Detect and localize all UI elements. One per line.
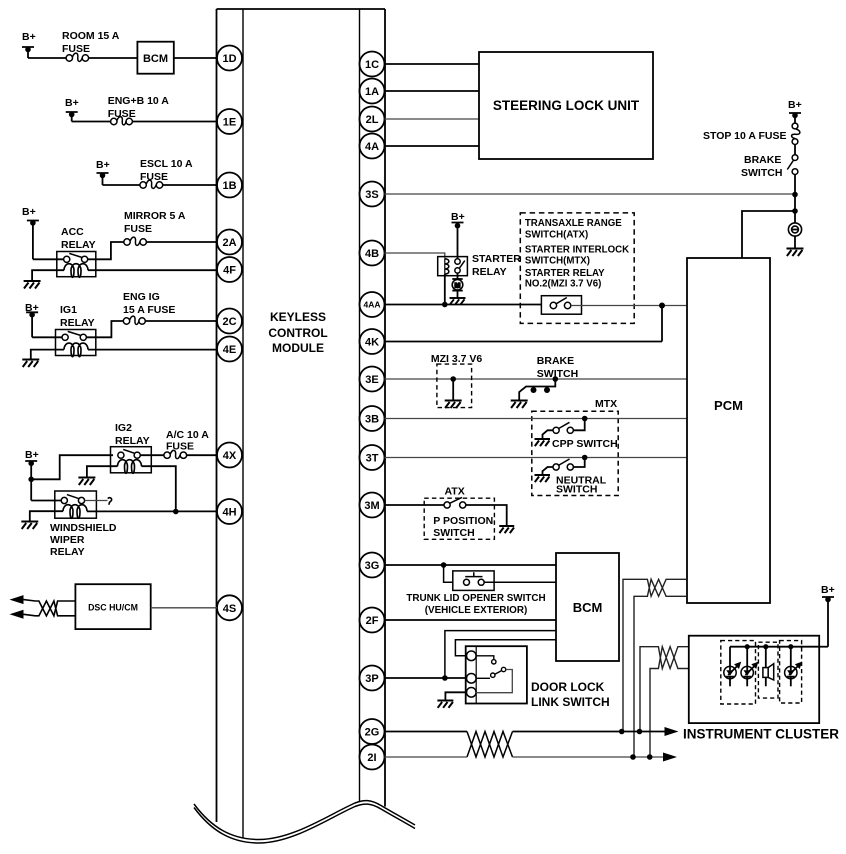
ground (starter motor)	[450, 298, 466, 304]
svg-text:A/C 10 A: A/C 10 A	[166, 429, 209, 441]
ground (neutral switch)	[535, 475, 551, 482]
svg-text:B+: B+	[451, 211, 465, 223]
wire pin 1C to steering lock unit	[385, 63, 480, 65]
keyless control module right strip outer line	[384, 9, 386, 807]
ground (wiper relay)	[21, 522, 38, 530]
wire 2G to instrument cluster arrow	[513, 731, 666, 733]
svg-text:1D: 1D	[222, 53, 236, 65]
wire B+ into cluster	[819, 646, 828, 648]
svg-text:4H: 4H	[222, 507, 236, 519]
fuse A/C 10 A	[164, 450, 187, 458]
wire IG1 coil to ground	[31, 350, 64, 359]
wire pin 4K	[385, 341, 663, 343]
pin 4F	[217, 257, 242, 282]
label WINDSHIELD WIPER RELAY	[50, 522, 117, 558]
svg-text:INSTRUMENT CLUSTER: INSTRUMENT CLUSTER	[683, 727, 839, 742]
pin 3T	[360, 445, 385, 470]
wire pin 3E to PCM	[385, 378, 688, 380]
fuse MIRROR 5 A	[124, 237, 147, 245]
svg-text:4F: 4F	[223, 265, 236, 277]
starter motor	[452, 273, 463, 297]
svg-text:4K: 4K	[365, 337, 379, 349]
wire tap down to trunk switch	[444, 565, 453, 582]
pin 2G	[360, 719, 385, 744]
wire 2I to arrow	[513, 756, 664, 758]
svg-text:ATX: ATX	[445, 486, 465, 498]
IG2 relay	[111, 447, 152, 474]
module bottom break wave	[194, 801, 415, 840]
pin 2F	[360, 608, 385, 633]
svg-text:CPP SWITCH: CPP SWITCH	[552, 438, 618, 450]
wire ACC coil to pin 4F	[88, 269, 217, 271]
wire IG2 coil to ground	[87, 466, 118, 477]
BCM box (top)	[137, 42, 173, 74]
pin 4S	[217, 595, 242, 620]
wire BCM to pin 1D	[174, 57, 217, 59]
junction bus LED3	[788, 644, 793, 649]
label TRUNK LID OPENER SWITCH	[406, 593, 545, 616]
pin 2A	[217, 230, 242, 255]
svg-text:B+: B+	[96, 159, 110, 171]
arrow (DSC pair lower)	[10, 610, 24, 619]
wire pin 2I line	[385, 756, 468, 758]
ground (IG1 relay)	[22, 360, 39, 368]
svg-text:4X: 4X	[223, 450, 237, 462]
svg-text:STARTER: STARTER	[472, 253, 521, 265]
DSC HU/CM box	[75, 584, 150, 629]
wire lamp to ground	[794, 236, 796, 248]
wire starter coil down to 4AA line	[444, 274, 446, 304]
svg-text:SWITCH(ATX): SWITCH(ATX)	[525, 229, 588, 240]
svg-text:RELAY: RELAY	[50, 546, 85, 558]
brake switch (right vertical)	[787, 145, 798, 175]
P position switch	[444, 497, 466, 508]
brake switch (3E plunger)	[519, 379, 555, 400]
junction 2G a	[619, 729, 625, 735]
fuse ESCL 10 A	[140, 180, 163, 188]
transaxle range switch dashed box	[520, 213, 634, 324]
svg-text:ROOM 15 A: ROOM 15 A	[62, 30, 120, 42]
IG1 relay	[56, 330, 96, 357]
wire B+ branch to IG2 relay	[31, 455, 113, 479]
ground (ACC relay)	[24, 281, 41, 289]
svg-text:4S: 4S	[223, 603, 236, 615]
wire brake switch down to lamp	[794, 175, 796, 224]
svg-text:BCM: BCM	[573, 600, 603, 615]
ground (IG2 relay)	[78, 478, 95, 486]
wire B+ to fuse	[103, 184, 140, 186]
stop lamp	[788, 223, 801, 236]
cluster dashed box 1	[721, 641, 756, 704]
pin 3E	[360, 367, 385, 392]
svg-text:2I: 2I	[367, 752, 376, 764]
wire BCM to door lock node	[445, 631, 556, 678]
svg-text:ACC: ACC	[61, 226, 84, 238]
junction 3P node	[442, 675, 448, 681]
label IG1 RELAY	[60, 304, 95, 329]
svg-text:BRAKE: BRAKE	[744, 154, 781, 166]
BCM-PCM twisted pair upper wire	[623, 579, 687, 731]
starter relay	[438, 257, 468, 276]
label IG2 RELAY	[115, 422, 150, 447]
junction CPP tap	[582, 416, 588, 422]
wire B+ to IG1 relay	[32, 336, 62, 338]
pin 1A	[360, 79, 385, 104]
svg-text:3M: 3M	[364, 500, 379, 512]
fuse ENG IG 15 A	[123, 316, 145, 324]
svg-text:FUSE: FUSE	[124, 223, 152, 235]
wire IG2 coil to 4H line	[142, 466, 176, 511]
windshield wiper relay	[55, 491, 97, 518]
brake switch contacts	[531, 387, 551, 393]
svg-text:SWITCH: SWITCH	[741, 167, 782, 179]
wire B+ to fuse	[72, 121, 111, 123]
junction bus LED2	[745, 644, 750, 649]
svg-text:3T: 3T	[366, 453, 379, 465]
wire wiper coil to pin 4H	[87, 510, 217, 512]
label P POSITION SWITCH	[433, 515, 493, 539]
svg-text:WINDSHIELD: WINDSHIELD	[50, 522, 117, 534]
neutral switch	[543, 458, 585, 475]
wire pin 3S to brake switch node	[385, 193, 796, 195]
arrow 2G	[665, 727, 679, 736]
keyless control module left strip outer line	[216, 9, 218, 822]
MZI 3.7 V6 dashed box	[437, 364, 472, 408]
DSC twisted pair	[24, 600, 76, 616]
svg-text:4A: 4A	[365, 141, 379, 153]
ground (3E brake switch)	[511, 401, 528, 409]
wire pin 4AA to interlock switch	[385, 304, 542, 306]
pin 1B	[217, 173, 242, 198]
wire IG1 coil to pin 4E	[88, 349, 217, 351]
pin 1C	[360, 52, 385, 77]
svg-text:RELAY: RELAY	[60, 317, 95, 329]
pin 4X	[217, 443, 242, 468]
fuse ROOM 15 A	[66, 53, 89, 61]
svg-text:B+: B+	[788, 99, 802, 111]
junction 2G b	[637, 729, 643, 735]
svg-text:NO.2(MZI 3.7 V6): NO.2(MZI 3.7 V6)	[525, 279, 601, 290]
pin 3G	[360, 553, 385, 578]
svg-text:FUSE: FUSE	[140, 171, 168, 183]
svg-text:RELAY: RELAY	[61, 239, 96, 251]
PCM box	[687, 258, 770, 603]
wire pin 3B to PCM	[385, 418, 688, 420]
label ACC RELAY	[61, 226, 96, 251]
junction neutral tap	[582, 455, 588, 461]
svg-text:3P: 3P	[365, 673, 378, 685]
svg-text:3B: 3B	[365, 414, 379, 426]
svg-text:STARTER INTERLOCK: STARTER INTERLOCK	[525, 245, 629, 256]
svg-text:4AA: 4AA	[363, 300, 380, 310]
label BRAKE SWITCH (right)	[741, 154, 782, 179]
wire pin 4A to steering lock unit	[385, 145, 480, 147]
svg-text:1E: 1E	[223, 117, 236, 129]
wire door lock bottom pin to ground	[445, 692, 466, 700]
wire fuse to pin 4X	[187, 454, 217, 456]
svg-text:(VEHICLE EXTERIOR): (VEHICLE EXTERIOR)	[425, 605, 528, 616]
keyless control module name	[268, 310, 327, 355]
label BRAKE SWITCH (3E)	[537, 355, 578, 380]
svg-text:3G: 3G	[365, 560, 380, 572]
wire ACC switch to fuse	[88, 242, 124, 259]
junction starter coil / 4AA	[442, 302, 448, 308]
svg-text:3E: 3E	[365, 374, 378, 386]
ground (stop lamp)	[787, 249, 804, 257]
wire pin 2F to BCM	[385, 619, 557, 621]
svg-text:PCM: PCM	[714, 398, 743, 413]
B+ terminal (instrument cluster)	[821, 584, 835, 647]
junction on 4H line	[173, 509, 179, 515]
svg-text:IG1: IG1	[60, 304, 77, 316]
door lock pin top	[467, 651, 477, 661]
door lock internal switch	[476, 667, 506, 678]
svg-text:TRUNK LID OPENER SWITCH: TRUNK LID OPENER SWITCH	[406, 593, 545, 604]
wire 4K riser	[661, 306, 663, 342]
trunk lid opener switch	[453, 571, 494, 591]
svg-text:RELAY: RELAY	[115, 435, 150, 447]
junction bus buzzer	[763, 644, 768, 649]
pin 4A	[360, 134, 385, 159]
svg-text:MZI 3.7 V6: MZI 3.7 V6	[431, 353, 483, 365]
junction B+ branch	[28, 477, 34, 483]
label ENG IG 15 A FUSE	[123, 291, 175, 316]
indicator LED 1	[724, 647, 741, 687]
svg-text:ENG+B 10 A: ENG+B 10 A	[108, 95, 170, 107]
svg-text:2C: 2C	[222, 316, 236, 328]
pin 4AA	[360, 292, 385, 317]
junction 4AA/4K	[659, 303, 665, 309]
label STARTER RELAY	[472, 253, 521, 278]
B+ terminal (IG2/wiper relays)	[25, 449, 39, 501]
wire pin 4B to starter relay coil	[385, 253, 445, 259]
junction PCM branch node	[792, 208, 798, 214]
wire pin 3G to BCM	[385, 564, 557, 566]
ATX dashed box	[424, 498, 494, 539]
B+ terminal (starter relay)	[451, 211, 465, 259]
svg-text:IG2: IG2	[115, 422, 132, 434]
CPP switch	[543, 419, 585, 439]
cluster dashed box 2	[758, 642, 778, 698]
svg-text:3S: 3S	[365, 189, 378, 201]
svg-text:4E: 4E	[223, 344, 236, 356]
wire IG1 switch to fuse	[86, 321, 123, 337]
wire B+ to wiper relay	[31, 500, 61, 502]
svg-text:DSC HU/CM: DSC HU/CM	[88, 603, 138, 613]
B+ terminal (ESCL fuse)	[96, 159, 110, 185]
svg-text:BCM: BCM	[143, 53, 168, 65]
B+ terminal (IG1 relay)	[25, 302, 39, 337]
label ENG+B 10 A FUSE	[108, 95, 170, 120]
arrow 2I	[663, 753, 677, 762]
wire ACC coil to ground	[32, 270, 64, 280]
door lock internal return wire	[476, 670, 512, 693]
svg-text:M: M	[455, 282, 461, 289]
BCM box (lower)	[556, 553, 619, 661]
pin 4B	[360, 241, 385, 266]
label ESCL 10 A FUSE	[140, 158, 193, 183]
pin 3P	[360, 666, 385, 691]
wire fuse to pin 1B	[163, 184, 217, 186]
cluster internal bus	[730, 646, 819, 648]
label A/C 10 A FUSE	[166, 429, 209, 453]
cluster dashed box 3	[780, 641, 802, 703]
instrument cluster box	[689, 636, 819, 723]
svg-text:BRAKE: BRAKE	[537, 355, 574, 367]
svg-text:2A: 2A	[222, 237, 236, 249]
wire pin 3M to P position switch	[385, 504, 444, 506]
svg-text:RELAY: RELAY	[472, 266, 507, 278]
2G/2I twisted pair	[467, 732, 513, 758]
wire DSC to pin 4S	[151, 607, 217, 609]
cluster twisted pair lower wire	[650, 647, 689, 757]
keyless control module top edge	[217, 8, 386, 10]
svg-text:B+: B+	[25, 449, 39, 461]
svg-text:DOOR LOCK: DOOR LOCK	[531, 680, 605, 694]
svg-text:ENG IG: ENG IG	[123, 291, 160, 303]
wire BCM to door lock top pin	[455, 640, 556, 656]
pin 4K	[360, 329, 385, 354]
ground (CPP switch)	[535, 439, 551, 446]
starter interlock switch	[541, 296, 581, 315]
svg-text:WIPER: WIPER	[50, 534, 85, 546]
MTX dashed box	[532, 411, 618, 495]
junction 2I b	[647, 754, 653, 760]
indicator LED 3	[785, 647, 802, 687]
wire wiper coil to ground	[30, 511, 63, 521]
B+ terminal (stop fuse)	[788, 99, 802, 123]
fuse STOP 10 A (vertical)	[792, 123, 800, 144]
pin 3S	[360, 182, 385, 207]
wire node to PCM top	[742, 211, 795, 258]
junction trunk switch tap	[441, 562, 447, 568]
cluster twisted pair upper wire	[640, 647, 689, 732]
pin 3B	[360, 406, 385, 431]
wire pin 2L to steering lock unit	[385, 118, 480, 120]
svg-text:4B: 4B	[365, 248, 379, 260]
wire fuse to BCM box	[89, 57, 138, 59]
junction 3S node	[792, 192, 798, 198]
B+ terminal (ENG+B fuse)	[65, 97, 79, 122]
svg-text:1C: 1C	[365, 59, 379, 71]
svg-text:FUSE: FUSE	[166, 441, 194, 453]
wire 3E tap to ground	[452, 379, 454, 400]
svg-text:P POSITION: P POSITION	[433, 515, 493, 527]
arrow (DSC pair upper)	[10, 595, 24, 604]
B+ terminal (ACC relay)	[22, 206, 39, 259]
svg-text:2G: 2G	[365, 727, 380, 739]
wire fuse to pin 2A	[146, 241, 217, 243]
ground (door lock)	[437, 701, 453, 708]
ACC relay	[57, 252, 96, 278]
pin 2C	[217, 309, 242, 334]
junction 2I a	[630, 754, 636, 760]
svg-text:TRANSAXLE RANGE: TRANSAXLE RANGE	[525, 218, 622, 229]
label ROOM 15 A FUSE	[62, 30, 120, 55]
wire trunk switch to BCM	[484, 581, 556, 583]
svg-text:MIRROR 5 A: MIRROR 5 A	[124, 210, 186, 222]
svg-text:LINK SWITCH: LINK SWITCH	[531, 695, 610, 709]
label DOOR LOCK LINK SWITCH	[531, 680, 610, 709]
svg-text:B+: B+	[821, 584, 835, 596]
pin 2I	[360, 745, 385, 770]
svg-text:SWITCH(MTX): SWITCH(MTX)	[525, 255, 590, 266]
pin 4H	[217, 499, 242, 524]
pin 3M	[360, 493, 385, 518]
pin 1D	[217, 46, 242, 71]
BCM-PCM twisted pair lower wire	[634, 579, 687, 757]
svg-text:MODULE: MODULE	[272, 341, 324, 355]
svg-text:B+: B+	[22, 206, 36, 218]
wiper relay switch stub with open end	[85, 498, 112, 505]
svg-text:CONTROL: CONTROL	[268, 326, 327, 340]
svg-text:SWITCH: SWITCH	[433, 527, 474, 539]
junction brake switch tap	[553, 376, 559, 382]
svg-text:ESCL 10 A: ESCL 10 A	[140, 158, 193, 170]
wire P position switch to ground	[466, 505, 507, 526]
door lock pin bottom	[467, 688, 477, 698]
label NEUTRAL SWITCH	[556, 475, 607, 496]
wire pin 3P to door lock	[385, 677, 467, 679]
door lock internal top contact	[476, 656, 496, 664]
svg-text:B+: B+	[22, 31, 36, 43]
svg-text:STEERING LOCK UNIT: STEERING LOCK UNIT	[493, 98, 640, 113]
junction 3E tap	[450, 376, 456, 382]
wire pin 2G line	[385, 731, 468, 733]
keyless control module left strip inner line	[242, 9, 244, 838]
svg-text:B+: B+	[65, 97, 79, 109]
door lock pin middle	[467, 674, 477, 684]
wire pin 1A to steering lock unit	[385, 90, 480, 92]
steering lock unit box	[479, 52, 653, 159]
pin 2L	[360, 107, 385, 132]
label transaxle range switch	[525, 218, 629, 290]
door lock link switch box	[466, 646, 527, 703]
svg-text:STOP 10 A FUSE: STOP 10 A FUSE	[703, 130, 786, 142]
indicator LED 2	[741, 647, 758, 687]
buzzer	[763, 647, 774, 687]
B+ terminal (ROOM fuse)	[22, 31, 36, 58]
wire fuse to pin 2C	[145, 320, 217, 322]
wire fuse to pin 1E	[132, 121, 217, 123]
ground (MZI)	[445, 401, 462, 409]
svg-text:KEYLESS: KEYLESS	[270, 310, 326, 324]
wire B+ to ACC relay	[33, 258, 64, 260]
ground (P position switch)	[499, 526, 514, 533]
fuse ENG+B 10 A	[111, 117, 133, 125]
pin 4E	[217, 337, 242, 362]
svg-text:1A: 1A	[365, 86, 379, 98]
keyless control module right strip inner line	[359, 9, 361, 802]
wire interlock switch to PCM	[571, 305, 687, 307]
svg-text:1B: 1B	[222, 180, 236, 192]
wire IG2 switch to fuse	[140, 454, 164, 456]
svg-text:SWITCH: SWITCH	[556, 484, 597, 496]
pin 1E	[217, 109, 242, 134]
wire B+ to fuse	[28, 57, 66, 59]
label MIRROR 5 A FUSE	[124, 210, 186, 235]
wire pin 3T to PCM	[385, 457, 688, 459]
svg-text:MTX: MTX	[595, 398, 617, 410]
svg-text:2L: 2L	[366, 114, 379, 126]
svg-text:15 A FUSE: 15 A FUSE	[123, 304, 175, 316]
svg-text:2F: 2F	[366, 615, 379, 627]
